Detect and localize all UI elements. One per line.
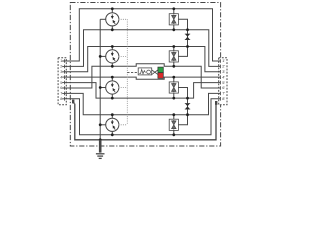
earth terminal left (bold) [72,100,74,104]
LifeCheck link chevron [152,70,158,74]
LifeCheck sensor box [138,68,152,75]
LifeCheck sensor waveform [139,70,145,74]
wire line2 (pin2 to pin2') [65,30,221,67]
gas discharge tube G1 [106,9,119,30]
GDT centre stub pair2 [100,55,106,57]
terminal block left (dashed) [58,58,66,105]
wire line1 (pin1 to pin1') [65,9,221,61]
LifeCheck sensor coil circle [147,70,151,74]
svg-text:1': 1' [222,58,225,63]
wire line6 (pin5 to pin5') [65,83,221,99]
svg-text:6': 6' [222,85,225,90]
gas discharge tube G3 [106,77,119,98]
TVS diode box D4 [169,115,178,135]
svg-text:8: 8 [60,96,62,101]
svg-text:3': 3' [222,69,225,74]
monitoring dashed link to LifeCheck [127,71,138,73]
svg-text:1: 1 [60,58,62,63]
LifeCheck indicator red [158,73,163,79]
GDT centre stub pair1 [100,18,106,20]
svg-text:6: 6 [60,85,62,90]
TVS diode box D1 [169,9,178,30]
terminal block right (dashed) [219,58,227,105]
earth terminal right (bold) [215,101,217,105]
wire line8 (pin8 to pin8') [65,99,221,135]
pin numbers left [60,58,63,101]
enclosure dash-dot border [70,3,220,147]
svg-text:8': 8' [222,96,225,101]
decoupling diode column upper [178,19,190,56]
wire line3 (pin3 to pin3') [65,47,221,72]
svg-text:4': 4' [222,74,225,79]
svg-text:2: 2 [60,64,62,69]
terminal ticks right [219,59,221,100]
terminal ticks left [62,59,64,100]
svg-text:7: 7 [60,91,62,96]
monitoring dotted bus [119,19,128,125]
gas discharge tube G2 [106,47,119,67]
TVS diode box D3 [169,77,178,98]
left earth lead [73,102,75,104]
wire line7 (pin7 to pin7') [65,93,221,114]
svg-text:3: 3 [60,69,62,74]
TVS diode box D2 [169,47,178,67]
earth symbol [96,154,105,159]
GDT centre stub pair3 [100,87,106,89]
GDT centre stub pair4 [100,124,106,126]
gas discharge tube G4 [106,115,119,135]
ground collect bus (GDT centre electrodes) [99,19,101,140]
earth conductor (bold drop) [99,140,102,153]
ground bus wire [75,103,216,140]
svg-text:2': 2' [222,64,225,69]
LifeCheck indicator green [158,67,163,73]
pin numbers right [222,58,225,101]
decoupling diode column lower [178,88,190,125]
wire line5 (pin4 to pin4' via rail5 with LifeCheck bulge) [65,77,221,79]
junction dots [99,7,189,141]
svg-text:5': 5' [222,80,225,85]
svg-text:7': 7' [222,91,225,96]
svg-text:5: 5 [60,80,62,85]
wire line4 (pin6 to pin6' via rail4 with LifeCheck bulge) [65,64,221,88]
